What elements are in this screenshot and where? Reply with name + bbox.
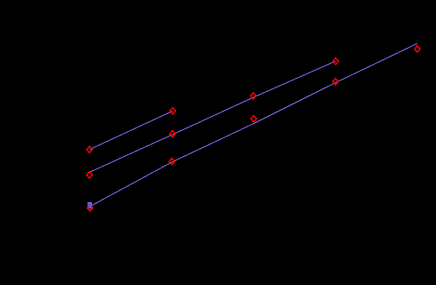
wire: series 3 fit line — [90, 44, 418, 207]
node: blue blob top patch over S3P1 top vertex — [88, 202, 91, 207]
node: diamond marker S1P1 — [87, 146, 93, 152]
node: diamond marker S3P3 — [251, 116, 257, 122]
node: diamond marker S3P5 — [415, 46, 421, 52]
node: diamond marker S3P4 — [333, 78, 339, 84]
node: diamond marker S3P2 — [169, 158, 175, 164]
node: diamond marker S2P2 — [170, 131, 176, 137]
wire: series 1 fit line — [90, 111, 173, 150]
wire: series 2 fit line — [89, 61, 335, 172]
node: diamond marker S1P2 — [170, 108, 176, 114]
node: diamond marker S3P1 — [87, 205, 93, 211]
node: diamond marker S2P1 — [87, 172, 93, 178]
node: diamond marker S2P3 — [251, 93, 257, 99]
node: diamond marker S2P4 — [333, 58, 339, 64]
node: blue square blob under series-3 first marker — [87, 202, 92, 208]
